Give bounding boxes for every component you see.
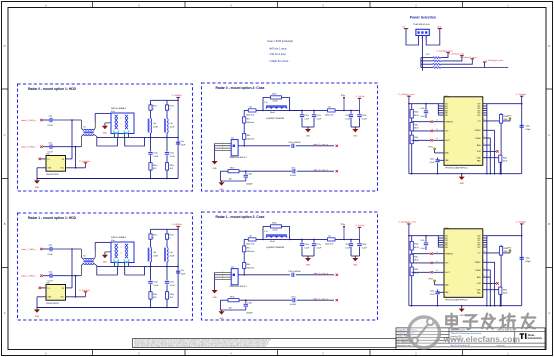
title block field grid [396,328,545,350]
wire U1 GND pin to rail and ground [37,297,46,308]
svg-text:R31x: R31x [414,124,418,126]
power flag V_5vDig(s)1_unre [398,221,416,224]
svg-text:L4x: L4x [170,123,173,125]
dashed block boundary Radar 0 mount option 1 [18,84,193,191]
capacitor C44U5x 0.1uF [430,158,444,174]
svg-text:L0x: L0x [249,106,252,108]
capacitor C190 0.01uF [290,167,334,177]
svg-text:IN6: IN6 [445,115,448,117]
wire filter mid rail [97,137,178,139]
pin wire DxOT no-connect [412,138,444,141]
svg-text:0: 0 [169,238,170,240]
svg-text:0.1uF: 0.1uF [304,118,310,120]
ground at D1 [102,123,111,135]
frame zone ticks bottom [45,350,509,356]
svg-text:0: 0 [153,109,154,111]
svg-text:GND: GND [212,297,217,299]
capacitor C151 0.033uF coupling [288,271,334,277]
wire shared gnd right cap pair [351,255,360,257]
svg-text:C22x: C22x [345,115,349,117]
svg-text:0.01uF: 0.01uF [290,175,297,177]
wire RN1 row pins to common bus [421,58,433,68]
svg-text:L1x: L1x [265,102,268,104]
svg-text:GND: GND [220,189,225,191]
svg-text:LQH3NPT100MJRL: LQH3NPT100MJRL [266,118,285,120]
svg-text:R17x: R17x [153,234,157,236]
resistor R81 600 ohm [243,252,255,275]
wire top rail right from IC output pins [483,236,522,306]
resistor R17a1 0 [149,229,157,247]
inductor L4a1 10uH [148,247,158,266]
no connect pin U1 left [39,287,46,289]
svg-text:V_5vDig(s)_unre: V_5vDig(s)_unre [398,93,415,96]
ground at IC rail [459,306,465,317]
resistor R141 49.9 [149,284,157,307]
wire shared gnd right cap pair [351,126,360,128]
svg-text:66.5k: 66.5k [414,247,418,249]
svg-text:IN3: IN3 [445,240,448,242]
wire left supply bus [408,96,410,174]
svg-text:OUT: OUT [477,238,480,240]
wire U1 GND pin to rail and ground [37,168,46,179]
svg-text:B: B [4,222,6,226]
power flag V_5vDig(s)1_unre [483,59,504,62]
wire J1 pins to gnd bus [215,271,232,290]
svg-text:C3x: C3x [49,271,53,273]
ground at IC rail [459,174,465,185]
svg-text:600 ohm: 600 ohm [247,251,255,253]
svg-text:ILIM: ILIM [477,151,481,153]
svg-text:C44x: C44x [430,159,434,161]
wire bottom rail [37,178,178,180]
svg-text:0.1uF: 0.1uF [170,285,176,287]
svg-text:R12x: R12x [272,94,277,96]
wire top rail left to IC input pins [409,104,444,115]
svg-text:66.5k: 66.5k [414,128,418,130]
wire top rail right from IC output pins [483,104,522,174]
svg-text:C21x: C21x [316,244,320,246]
svg-text:GND: GND [103,133,108,135]
svg-text:A: A [4,311,6,315]
svg-text:0: 0 [153,238,154,240]
svg-text:C23x: C23x [362,115,366,117]
wire D1 bottom pins to filter rail [97,263,145,276]
svg-text:GND: GND [220,318,225,320]
pin wire DxOT no-connect [412,270,444,273]
capacitor C181 2200pF [244,300,254,314]
inductor L4b1 10uH [165,247,175,266]
dashed block boundary Radar 1 mount option 1 [18,213,193,320]
svg-text:R34x: R34x [503,157,507,159]
wire RN1 row 1 to net flag [441,52,448,57]
svg-text:R17x: R17x [169,105,173,107]
svg-text:TP7x: TP7x [507,248,511,250]
svg-text:49.9: 49.9 [153,297,157,299]
svg-text:WM4200-4-0DLS-T: WM4200-4-0DLS-T [230,157,248,159]
svg-text:D: D [548,44,550,48]
pin wire P400B [483,268,491,306]
svg-text:4: 4 [484,143,485,145]
wire left supply bus [408,224,410,306]
ESD diode array D11 D4DGL-40MA-Z [111,236,134,263]
capacitor C44U6x 0.1uF [430,290,444,306]
svg-text:radar_0_case_p: radar_0_case_p [313,143,329,146]
capacitor C231 0.1uF [357,239,367,256]
wire ground rail [409,305,522,307]
wire RN1 row 4 to net flag [441,67,509,69]
svg-text:10uH: 10uH [153,126,158,128]
capacitor C211 0.1uF [312,239,322,256]
svg-text:D: D [4,44,6,48]
svg-text:radar_0_HW_n: radar_0_HW_n [21,146,37,149]
svg-text:ICT: ICT [478,121,481,123]
resistor R121 4.22k parallel loop [263,223,290,240]
svg-text:R13x: R13x [230,167,234,169]
svg-text:D1: D1 [48,288,50,290]
svg-text:14: 14 [436,120,438,122]
dashed block boundary Radar 0 mount option 2 [202,83,378,191]
transformer driver U11 SN6501DBVR [46,283,66,305]
svg-text:7: 7 [484,149,485,151]
pin wire AGN [483,275,491,277]
net label radar_1_HW_p [21,248,43,251]
svg-text:2200pF: 2200pF [246,313,253,315]
svg-text:600 ohm: 600 ohm [247,139,255,141]
svg-text:0.1uF: 0.1uF [48,254,54,256]
resistor R32U5x 66.5k [410,131,418,174]
svg-text:GND: GND [103,262,108,264]
ferrite bead L00 1000 ohm [246,106,256,116]
title block disclaimer box [133,339,397,348]
capacitor C21 0.1uF [48,245,54,256]
svg-text:Instruments: Instruments [528,337,543,340]
svg-text:OUT: OUT [477,240,480,242]
ground right cap pair [352,256,358,267]
svg-text:Radar 1 - mount option 2: Coax: Radar 1 - mount option 2: Coax [216,215,265,219]
wire U1 D1 pin to net1 junction [66,158,73,160]
svg-text:R30x: R30x [414,112,418,114]
wire net1 to C2 and choke [43,119,81,121]
pin wire DRNLP [483,128,495,174]
svg-text:C46x: C46x [525,258,529,260]
svg-text:R13x: R13x [230,296,234,298]
wire J30 pin1 to 5V flag [406,29,419,45]
capacitor C140 0.1uF [148,137,159,158]
svg-text:0.1uF: 0.1uF [153,156,159,158]
net label radar_1_case_p [313,272,338,276]
svg-text:IN6: IN6 [445,247,448,249]
svg-text:R18x: R18x [169,165,173,167]
wire net2 to C3 and choke [43,275,81,277]
svg-text:V_5vDig0x: V_5vDig0x [516,94,527,96]
ground left cap pair [305,256,311,267]
svg-text:64.3k: 64.3k [503,161,507,163]
ground at J1 [212,289,218,300]
resistor R120 4.22k parallel loop [263,94,290,111]
power flag V_5vC0 [356,96,366,110]
test point TP6U6x [428,279,444,285]
svg-text:1000 ohm: 1000 ohm [246,115,255,117]
svg-text:IN5: IN5 [445,113,448,115]
svg-text:0.1uF: 0.1uF [345,247,351,249]
svg-text:1.5k for A amp: 1.5k for A amp [269,52,286,56]
connector J11 WM4200-4-0DLS-T [230,267,248,289]
svg-text:L2x: L2x [328,235,331,237]
wire junction net1 down to U1 pin [71,120,73,159]
test point TP7U5x [507,116,511,121]
wire right bus [177,226,179,307]
svg-text:16: 16 [484,119,486,121]
svg-text:C2x: C2x [49,245,53,247]
svg-text:66.5k: 66.5k [414,115,418,117]
svg-text:GND: GND [459,183,464,185]
resistor R30U5x 66.5k [410,104,418,118]
power flag V_5vC1 [356,225,366,239]
svg-text:L4x: L4x [153,252,156,254]
svg-text:C15x 0.033uF: C15x 0.033uF [288,271,301,273]
svg-text:IN1: IN1 [445,104,448,106]
svg-text:C3x: C3x [49,142,53,144]
svg-text:DxOT: DxOT [445,272,449,274]
wire J1 signal to C15 cap [238,145,290,147]
svg-text:64.3k: 64.3k [503,293,507,295]
svg-text:A: A [548,311,550,315]
svg-text:1: 1 [484,128,485,130]
svg-text:C15x 0.033uF: C15x 0.033uF [288,142,301,144]
ground lower run [219,310,225,320]
pin wire PWM no-connect [412,252,444,255]
resistor R80 600 ohm [243,123,255,146]
svg-text:15: 15 [436,261,438,263]
svg-text:GND: GND [306,265,311,267]
capacitor C201 0.1uF [300,239,310,256]
net label radar_0_case_n [313,168,338,172]
svg-text:C5x: C5x [181,270,184,272]
resistor R31U6x 66.5k [410,250,418,263]
svg-text:C15x: C15x [170,282,174,284]
wire J30 pin2 down to resistor network RN1 [421,36,423,71]
svg-text:0: 0 [169,109,170,111]
ground left cap pair [305,127,311,138]
svg-text:GND: GND [459,315,464,317]
power flag V_5vInt(s)_unre [449,53,465,56]
svg-text:1: 1 [484,260,485,262]
svg-text:2: 2 [484,136,485,138]
svg-text:TP7x: TP7x [507,116,511,118]
capacitor C200 0.1uF [300,110,310,127]
power flag V_5vRF0 [172,95,183,97]
svg-text:SN6501DBVR: SN6501DBVR [46,174,59,176]
wire junction net1 down to U1 pin [71,249,73,288]
svg-text:L2x: L2x [328,106,331,108]
svg-text:2: 2 [421,38,422,40]
resistor R130 100 [228,167,239,180]
resistor R181 49.9 [165,284,173,307]
ground right cap pair [352,127,358,138]
svg-text:L0x: L0x [249,235,252,237]
svg-text:0.1uF: 0.1uF [316,118,322,120]
svg-text:10uH: 10uH [270,241,275,243]
pin wire DRNLP [483,260,495,306]
svg-text:13: 13 [436,270,438,272]
svg-text:C42x: C42x [420,240,424,242]
power flag V_5vDig(s)_unre [398,93,415,96]
svg-text:600 ohm: 600 ohm [247,122,255,124]
svg-text:100: 100 [229,179,232,181]
svg-text:GND: GND [35,187,40,189]
svg-text:TP4x: TP4x [341,224,345,226]
ground lower run [219,181,225,191]
svg-text:100k: 100k [504,251,508,253]
wire coax top rail [244,110,359,112]
svg-text:66.5k: 66.5k [414,141,418,143]
svg-text:C15x: C15x [170,153,174,155]
svg-text:P400B: P400B [475,138,481,140]
frame zone ticks right [546,44,553,315]
capacitor C150 0.033uF coupling [288,142,334,148]
svg-text:R17x: R17x [153,105,157,107]
transformer T10 common mode choke [81,120,97,147]
svg-text:R31x: R31x [414,256,418,258]
svg-text:R8x: R8x [247,135,250,137]
pin wire PWM no-connect [412,120,444,123]
wire shared gnd left cap pair [302,126,314,128]
svg-text:C: C [4,133,6,137]
svg-text:13: 13 [436,138,438,140]
svg-text:OUT: OUT [477,242,480,244]
svg-text:C14x: C14x [153,153,157,155]
svg-text:B: B [548,222,550,226]
svg-text:R12x: R12x [272,223,277,225]
svg-text:D4DGL-40MA-Z: D4DGL-40MA-Z [111,107,127,110]
svg-text:IN5: IN5 [445,245,448,247]
svg-text:0.01uF: 0.01uF [290,304,297,306]
LED driver UU5x TPS929120AQPWPRQ1 [444,96,483,169]
svg-text:LQH3NPT100MJRL: LQH3NPT100MJRL [266,247,285,249]
svg-text:0.1uF: 0.1uF [316,247,322,249]
svg-text:GND: GND [212,168,217,170]
power flag V_5vInt(s)1_unre [460,56,478,59]
ferrite bead L21 1000 ohm [325,235,335,245]
svg-text:OUT: OUT [477,104,480,106]
svg-text:C18x: C18x [248,303,252,305]
svg-text:ICT: ICT [478,253,481,255]
svg-text:L4x: L4x [170,252,173,254]
svg-text:66.5k: 66.5k [414,273,418,275]
capacitor C141 0.1uF [148,266,159,287]
resistor R70 600 ohm [243,110,255,124]
svg-text:TP6x: TP6x [428,147,432,149]
svg-text:C42x: C42x [420,108,424,110]
resistor R140 49.9 [149,155,157,178]
test point TP41 [341,224,346,240]
svg-text:L1x: L1x [265,231,268,233]
capacitor C20 0.1uF [48,116,54,127]
resistor R34U6x 64.3k [483,287,508,306]
svg-text:OUT: OUT [477,108,480,110]
power flag V_5vDig1x [516,222,527,224]
svg-text:Imax = 6V/6 (reduced): Imax = 6V/6 (reduced) [267,39,293,43]
pin wire ILIM no-connect [483,281,499,284]
svg-text:R32x: R32x [414,269,418,271]
net label radar_1_HW_n [21,275,43,278]
svg-text:GND: GND [306,136,311,138]
svg-text:C5x: C5x [181,141,184,143]
svg-text:100pF: 100pF [525,129,531,131]
svg-text:14: 14 [436,252,438,254]
svg-text:1000 ohm: 1000 ohm [246,244,255,246]
svg-text:Radar 0 - mount option 2: Coax: Radar 0 - mount option 2: Coax [216,86,265,90]
svg-text:R14x: R14x [153,294,157,296]
no connect pin U1 left [39,158,46,160]
svg-text:2: 2 [484,268,485,270]
net label radar_0_HW_p [21,119,43,122]
svg-text:4k7k for 1 amp: 4k7k for 1 amp [269,47,287,51]
wire filter top rail [151,99,179,101]
resistor R30U6x 66.5k [410,236,418,250]
svg-text:GND: GND [353,265,358,267]
resistor R17a0 0 [149,100,157,118]
svg-text:D2: D2 [62,288,64,290]
svg-text:49.9: 49.9 [169,168,173,170]
wire lower run [220,170,292,181]
net label radar_1_case_n [313,297,338,301]
svg-text:TPS929120AQPWPRQ1: TPS929120AQPWPRQ1 [445,298,469,301]
svg-text:49.9: 49.9 [153,168,157,170]
connector J30 [416,29,429,39]
frame zone ticks top [45,2,509,8]
pin wire ILIM no-connect [483,149,499,152]
svg-text:1000 ohm: 1000 ohm [325,244,334,246]
svg-text:10uH: 10uH [170,255,175,257]
wire net1 to C2 and choke [43,248,81,250]
svg-text:0.1uF: 0.1uF [362,118,368,120]
svg-text:16: 16 [484,251,486,253]
svg-text:R34x: R34x [503,289,507,291]
wire D1 bottom pins to filter rail [97,134,145,147]
svg-text:IN2: IN2 [445,106,448,108]
capacitor C30 0.1uF [48,142,54,153]
power flag V_5vRF1 [172,224,183,226]
svg-text:R32x: R32x [414,137,418,139]
power flag V_5v5vD1 [79,290,91,297]
resistor R17b0 0 [165,100,173,118]
capacitor C230 0.1uF [357,110,367,127]
wire U1 VCC pin to power flag [66,296,86,298]
svg-text:R7x: R7x [247,248,250,250]
svg-text:C: C [548,133,550,137]
resistor R31U5x 66.5k [410,118,418,131]
svg-text:0.1uF: 0.1uF [48,125,54,127]
transformer T11 common mode choke [81,249,97,276]
svg-text:radar_0_case_n: radar_0_case_n [313,168,329,171]
resistor R33U6x 100k [500,245,508,306]
svg-text:OUT: OUT [477,110,480,112]
svg-text:IN3: IN3 [445,108,448,110]
svg-text:0.1uF: 0.1uF [304,247,310,249]
wire choke to D1 pins [95,242,111,251]
wire filter top rail [151,228,179,230]
svg-text:10uH: 10uH [170,126,175,128]
wire U1 D1 pin to net1 junction [66,287,73,289]
svg-text:TP6x: TP6x [428,279,432,281]
svg-text:V_5vDig(s)1_unre: V_5vDig(s)1_unre [398,221,416,224]
svg-text:REF: REF [445,292,448,294]
svg-text:OUT: OUT [477,106,480,108]
net label radar_0_HW_n [21,146,43,149]
svg-text:1000 ohm: 1000 ohm [325,115,334,117]
svg-text:radar_1_case_p: radar_1_case_p [313,272,329,275]
